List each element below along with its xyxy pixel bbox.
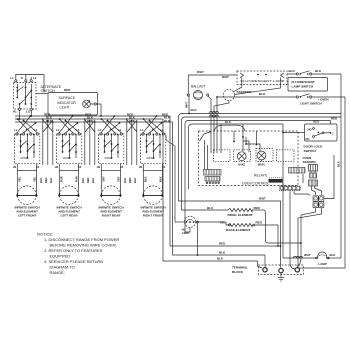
wire alt switch L1 to light box	[16, 75, 44, 93]
oven control box	[199, 131, 299, 186]
svg-text:YEL: YEL	[17, 176, 21, 182]
svg-text:BLK: BLK	[219, 251, 226, 255]
wire BLK bottom run 1	[264, 255, 266, 268]
wire RED into door lock	[330, 121, 332, 125]
svg-text:WHT: WHT	[185, 102, 189, 108]
svg-text:BROIL: BROIL	[258, 163, 266, 166]
svg-text:RANGE.: RANGE.	[50, 270, 65, 275]
svg-text:BLK: BLK	[330, 253, 337, 257]
svg-text:OVEN CONTROL: OVEN CONTROL	[242, 182, 269, 186]
connector P3 dark block	[269, 179, 283, 183]
svg-text:LAMP: LAMP	[318, 262, 327, 266]
oven light switch	[217, 92, 345, 105]
svg-text:LIGHT SWITCH: LIGHT SWITCH	[300, 102, 322, 106]
wire BLK bus 1	[15, 118, 163, 120]
wire v 185	[184, 124, 186, 230]
svg-text:INDICATOR: INDICATOR	[57, 101, 76, 105]
wire sensor leads to terminal 3	[297, 257, 301, 267]
svg-text:BLK: BLK	[91, 178, 95, 183]
wire alt switch L2 stub	[30, 77, 32, 80]
svg-text:RIGHT FRONT: RIGHT FRONT	[143, 214, 164, 218]
wire drops between units	[84, 119, 86, 165]
wire starter to oven control	[214, 101, 229, 131]
svg-text:RED: RED	[86, 177, 90, 183]
svg-text:WHT: WHT	[197, 70, 204, 74]
fluorescent lamp switch	[287, 69, 341, 91]
svg-text:L2: L2	[33, 76, 37, 80]
wire lamp to starter right	[235, 78, 281, 95]
svg-text:2. REFER ONLY TO FEATURES: 2. REFER ONLY TO FEATURES	[44, 248, 103, 253]
svg-text:BAKE: BAKE	[238, 163, 245, 166]
wire hi-limit to bake	[197, 221, 226, 223]
svg-text:WHT: WHT	[304, 253, 311, 257]
svg-text:P: P	[21, 76, 23, 80]
svg-text:3. SERVICER PLEASE RETURN: 3. SERVICER PLEASE RETURN	[44, 259, 103, 264]
svg-text:RELAYS: RELAYS	[254, 173, 268, 177]
connector P1	[204, 170, 222, 176]
relay coil broil	[257, 151, 266, 160]
wire RED run to door lock	[188, 120, 331, 122]
svg-text:BLK: BLK	[217, 257, 224, 261]
svg-text:BLK: BLK	[289, 69, 296, 73]
wire BLK to terminal 1	[173, 122, 266, 255]
wire BLK top run to right edge	[182, 113, 342, 115]
infinite switch RIGHT REAR	[97, 115, 137, 218]
wire drops between units	[126, 119, 128, 165]
wire arc over oven control	[215, 125, 245, 131]
svg-text:BLK: BLK	[81, 178, 85, 183]
wires from 2x2 connector	[301, 208, 316, 257]
svg-text:BLOCK: BLOCK	[232, 270, 244, 274]
door lock switch	[305, 124, 338, 141]
wire alt switch H1 to bus	[19, 110, 21, 119]
wire BLK bus 2	[15, 121, 173, 123]
surface element LEFT REAR	[59, 171, 78, 196]
svg-text:PUR: PUR	[75, 176, 79, 182]
svg-text:LO: LO	[26, 110, 31, 114]
svg-text:BLK: BLK	[133, 178, 137, 183]
alternate switch SW1	[10, 76, 36, 113]
infinite switch LEFT REAR	[55, 115, 95, 218]
wire RED bus	[15, 115, 170, 117]
svg-text:H2: H2	[55, 165, 59, 169]
svg-text:RED: RED	[64, 88, 71, 92]
svg-text:L1: L1	[10, 76, 14, 80]
svg-text:NC: NC	[306, 137, 310, 141]
wire v 188	[188, 127, 190, 189]
wire right edge vertical	[340, 74, 342, 258]
svg-text:NOTICE:: NOTICE:	[37, 232, 53, 237]
surface element LEFT FRONT	[17, 171, 36, 196]
wire to hi-limit	[166, 135, 175, 222]
svg-text:LIGHT: LIGHT	[60, 105, 71, 109]
svg-text:L1: L1	[56, 128, 60, 132]
svg-text:RIGHT REAR: RIGHT REAR	[102, 214, 122, 218]
svg-text:BROIL ELEMENT: BROIL ELEMENT	[228, 213, 253, 217]
svg-text:DIAGRAM TO: DIAGRAM TO	[50, 265, 75, 270]
svg-text:L1: L1	[14, 128, 18, 132]
svg-text:H1: H1	[13, 110, 17, 114]
wire alt switch LO to bus	[30, 110, 32, 116]
svg-text:BLK: BLK	[337, 160, 341, 167]
wire lamp to starter left	[233, 78, 242, 93]
svg-text:LEFT REAR: LEFT REAR	[61, 214, 79, 218]
svg-text:BLU: BLU	[207, 206, 213, 210]
wire to lamp	[283, 257, 316, 259]
connector 2x2	[313, 196, 324, 208]
bake element coil	[228, 223, 252, 226]
ballast	[187, 84, 209, 99]
infinite switch RIGHT FRONT	[139, 115, 166, 218]
surface element RIGHT REAR	[101, 171, 120, 196]
wire right edge vertical 2	[297, 97, 345, 268]
svg-text:GRY: GRY	[117, 176, 121, 182]
svg-text:BLK: BLK	[39, 178, 43, 183]
svg-text:RED: RED	[254, 206, 261, 210]
svg-text:BLK: BLK	[159, 176, 163, 182]
svg-text:SURFACE: SURFACE	[59, 96, 76, 100]
surface element RIGHT FRONT	[143, 171, 162, 196]
svg-text:BEFORE REMOVING WIRE COVER.: BEFORE REMOVING WIRE COVER.	[50, 243, 117, 248]
svg-text:H2: H2	[97, 165, 101, 169]
wire into hi-limit	[175, 221, 185, 223]
svg-text:BALLAST: BALLAST	[191, 84, 205, 88]
svg-text:SENSOR: SENSOR	[303, 160, 317, 164]
connector P2	[289, 168, 306, 174]
wire run y117	[185, 116, 342, 118]
wire WHT run	[179, 198, 281, 268]
svg-text:BLK: BLK	[143, 176, 147, 182]
svg-text:BLK: BLK	[191, 108, 198, 112]
wire v185 join	[185, 227, 190, 232]
connector strip	[280, 186, 301, 191]
svg-text:EQUIPPED.: EQUIPPED.	[50, 254, 72, 259]
svg-text:C: C	[332, 132, 334, 136]
wire alt switch to light box	[36, 93, 48, 95]
svg-text:YEL: YEL	[33, 176, 37, 182]
wire WHT ballast to lamp	[188, 75, 237, 94]
notice text	[37, 232, 119, 276]
svg-text:BLK: BLK	[315, 69, 322, 73]
svg-text:H2: H2	[139, 165, 143, 169]
starter	[223, 89, 251, 100]
svg-text:RED: RED	[256, 221, 263, 225]
relay modules	[214, 150, 231, 162]
oven control inner wires	[200, 132, 212, 142]
svg-text:YEL: YEL	[220, 221, 226, 225]
wire drops between units	[42, 119, 44, 165]
svg-text:GRY: GRY	[101, 176, 105, 182]
wire alt switch P stub	[25, 75, 27, 80]
svg-text:RED: RED	[44, 177, 48, 183]
wire BLK ballast drop	[188, 96, 190, 114]
svg-text:L1: L1	[98, 128, 102, 132]
wire RED bottom run	[170, 245, 281, 247]
svg-text:RED: RED	[331, 116, 338, 120]
ground	[280, 273, 282, 278]
svg-text:BLK: BLK	[49, 178, 53, 183]
surface indicator light	[48, 93, 98, 116]
fluorescent lamp	[237, 71, 287, 85]
wire lamp to right edge	[328, 257, 341, 259]
svg-text:LEFT FRONT: LEFT FRONT	[18, 214, 37, 218]
svg-text:BLK: BLK	[259, 92, 266, 96]
svg-text:BLK: BLK	[123, 178, 127, 183]
svg-text:RED: RED	[219, 242, 226, 246]
broil element coil	[228, 208, 252, 211]
svg-text:1. DISCONNECT RANGE FROM POWER: 1. DISCONNECT RANGE FROM POWER	[44, 237, 119, 242]
svg-text:H2: H2	[13, 165, 17, 169]
svg-text:WHT: WHT	[259, 197, 266, 201]
svg-text:BLK: BLK	[225, 120, 232, 124]
svg-text:WHT: WHT	[222, 75, 229, 79]
wire oven light sw to oven control	[216, 97, 218, 131]
svg-text:SWITCH: SWITCH	[304, 149, 317, 153]
wire door lock to relays	[283, 132, 305, 134]
svg-text:LAMP SWITCH: LAMP SWITCH	[292, 85, 315, 89]
svg-text:PUR: PUR	[59, 176, 63, 182]
broil element	[182, 207, 229, 210]
lamp	[315, 252, 329, 266]
svg-text:FLUORESCENT LAMP: FLUORESCENT LAMP	[241, 79, 285, 83]
relay coil bake	[237, 152, 246, 161]
hi-limit thermostat	[182, 216, 199, 235]
terminal block	[259, 265, 304, 275]
infinite switch LEFT FRONT	[13, 115, 53, 218]
bake element	[226, 222, 229, 225]
wire v 178	[178, 117, 180, 199]
wire hi-limit drop	[197, 223, 199, 255]
svg-text:RED: RED	[128, 177, 132, 183]
wire bundle corners	[179, 114, 182, 117]
wire BLK bottom run 2	[258, 261, 263, 268]
wire light to RED bus	[96, 104, 101, 116]
svg-text:RED: RED	[313, 120, 320, 124]
wire v 181	[181, 120, 183, 207]
wire v 283 down to lamp run	[282, 124, 284, 258]
wire ballast to oven control	[208, 96, 211, 131]
svg-text:L1: L1	[140, 128, 144, 132]
svg-text:BLK: BLK	[46, 119, 53, 123]
svg-text:FLUORESCENT: FLUORESCENT	[292, 80, 315, 84]
wire BLK bus down to terminal run	[163, 119, 258, 261]
wire RED bus down	[169, 116, 171, 246]
svg-text:BAKE ELEMENT: BAKE ELEMENT	[226, 228, 251, 232]
wire oven sensor leads	[312, 186, 316, 195]
